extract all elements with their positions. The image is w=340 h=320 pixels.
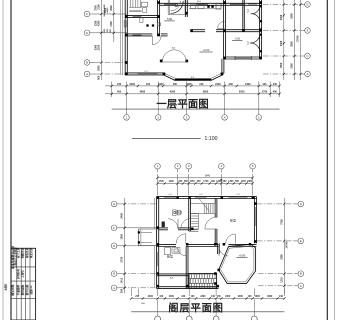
svg-text:4: 4 <box>221 164 223 168</box>
svg-text:平面图样: 平面图样 <box>16 284 20 295</box>
svg-text:900: 900 <box>97 75 100 80</box>
columns (plan2 concrete) <box>156 196 256 287</box>
svg-text:1210: 1210 <box>281 277 284 283</box>
wall: plan2 bedroom west lower <box>214 229 216 244</box>
svg-text:2400: 2400 <box>200 295 206 298</box>
svg-text:2360: 2360 <box>247 181 253 183</box>
svg-text:9840: 9840 <box>205 176 211 178</box>
svg-text:A: A <box>300 284 302 288</box>
dimension line (plan1 left inner) <box>113 0 115 42</box>
svg-text:工程号: 工程号 <box>20 270 24 278</box>
svg-text:500: 500 <box>235 181 240 183</box>
grid bubble 5 (plan1) <box>256 115 262 121</box>
svg-text:390: 390 <box>121 288 124 293</box>
svg-text:C-2: C-2 <box>247 40 249 44</box>
grid stems to bubbles (plan1 bottom) <box>127 97 259 114</box>
elevation label +5.80 (terrace) <box>237 255 248 258</box>
dimension line (plan2 right) <box>283 198 285 293</box>
grid line E dash-dot right <box>263 30 301 32</box>
window glazing wall E <box>133 34 142 37</box>
grid bubble 2 (plan2 top) <box>175 163 181 172</box>
svg-text:2700: 2700 <box>94 5 97 11</box>
title block text: project row <box>16 268 24 280</box>
bay window glazing thick <box>175 79 212 81</box>
svg-text:G: G <box>306 3 308 7</box>
svg-text:-0.05: -0.05 <box>235 37 241 40</box>
wall: plan2 stair west <box>188 199 190 232</box>
dimension row 1 (plan2 bottom) <box>130 297 285 299</box>
french door (living south wall) <box>160 60 188 63</box>
svg-text:1450: 1450 <box>228 180 234 183</box>
stair dim note (plan1 upper-left) <box>103 3 109 33</box>
svg-text:2400: 2400 <box>186 83 192 86</box>
grid bubble B (plan2 left) <box>111 271 121 277</box>
window glazing top wall (plan2) <box>164 197 248 199</box>
svg-text:550: 550 <box>184 181 189 183</box>
wall: plan1 kitchen bottom left part <box>191 29 205 31</box>
svg-text:+5.80: +5.80 <box>239 255 246 258</box>
svg-text:2400: 2400 <box>215 83 221 86</box>
svg-text:1200: 1200 <box>94 20 97 26</box>
svg-text:5: 5 <box>258 115 260 119</box>
svg-text:M-6: M-6 <box>172 48 176 50</box>
kitchen sink east <box>216 4 221 10</box>
flue niche on west wall <box>124 21 126 27</box>
small box east of left room <box>158 23 161 26</box>
door arc bedroom east (plan2) <box>226 234 236 244</box>
svg-text:1800: 1800 <box>291 63 294 69</box>
small fixture (plan1 left room) <box>140 18 143 22</box>
svg-text:350: 350 <box>178 181 183 183</box>
window glazing plan1 top wall <box>164 3 257 6</box>
grid line B dash-dot (plan2 right) <box>258 273 294 275</box>
wall: plan2 top exterior <box>157 196 257 198</box>
title block text: design institute <box>10 246 17 270</box>
svg-text:会签栏: 会签栏 <box>3 283 7 291</box>
wall: plan1 row C horizontal <box>224 56 262 58</box>
wall: plan2 lower partition vertical <box>185 247 187 289</box>
dimension texts (plan1 left inner) <box>104 5 113 27</box>
grid bubble 3 (plan2 top) <box>186 163 192 172</box>
svg-text:140: 140 <box>199 83 204 86</box>
wall: plan2 right exterior <box>253 197 255 244</box>
window glazing wall F <box>133 15 142 18</box>
grid bubble A (plan2 left) <box>111 285 121 291</box>
svg-text:一层平面图: 一层平面图 <box>156 98 208 110</box>
svg-text:2600: 2600 <box>291 13 294 19</box>
svg-text:400: 400 <box>117 91 122 94</box>
wall: plan2 corridor row D west <box>157 243 176 245</box>
svg-text:2600: 2600 <box>104 28 106 33</box>
svg-text:审核张某: 审核张某 <box>25 247 29 258</box>
svg-text:900: 900 <box>110 28 112 32</box>
window glazing left wall (plan2) <box>157 252 159 266</box>
svg-text:A: A <box>307 72 309 76</box>
toilet fixtures (plan1 WC) <box>141 2 147 12</box>
eave line plan1 west inner <box>122 0 124 75</box>
kitchen counter west <box>189 5 221 9</box>
svg-text:2400: 2400 <box>238 295 244 298</box>
svg-text:图名别墅: 图名别墅 <box>11 284 15 295</box>
svg-text:1300: 1300 <box>110 21 113 27</box>
french window lower (plan1 east) <box>250 34 262 53</box>
svg-text:4: 4 <box>224 115 226 119</box>
bay window outline (plan1 living) <box>164 75 223 80</box>
svg-text:F: F <box>86 12 88 16</box>
grid bubble B (plan1 left) <box>84 60 95 66</box>
svg-text:100: 100 <box>146 83 151 86</box>
svg-text:1:100: 1:100 <box>205 136 218 142</box>
grid stems to bottom bubbles (plan2) <box>158 300 255 317</box>
dimension texts (plan1 left outer) <box>97 4 100 80</box>
dimension line (plan1 right inner) <box>283 0 285 80</box>
elevation label -0.05 <box>232 37 243 40</box>
extra dimension texts (plan1 left) <box>94 5 112 51</box>
sheet frame inner left border <box>10 0 12 320</box>
dimension texts (plan1 right inner) <box>280 14 283 68</box>
title block outline <box>11 248 36 320</box>
dark fixture (plan2) <box>162 222 165 228</box>
stair treads (plan1 upper-left) <box>129 0 141 12</box>
grid bubble 4 (plan1) <box>222 115 228 121</box>
svg-text:2400: 2400 <box>169 295 175 298</box>
columns (plan1 concrete) <box>125 1 262 75</box>
grid bubble F (plan1 left) <box>84 11 95 17</box>
dimension extension lines (plan2 top) <box>158 174 253 196</box>
dimension texts (plan2 top) <box>159 180 253 183</box>
svg-text:5.80: 5.80 <box>167 17 173 21</box>
title block column dividers <box>17 248 30 320</box>
svg-text:C: C <box>306 54 308 58</box>
svg-text:阁层平面图: 阁层平面图 <box>168 301 223 314</box>
title block text: sheet row <box>11 284 34 295</box>
svg-text:4200: 4200 <box>97 20 100 26</box>
dimension line (plan2 left) <box>123 198 125 293</box>
svg-text:C-3: C-3 <box>236 194 240 196</box>
svg-text:1800: 1800 <box>121 233 124 239</box>
svg-text:G: G <box>300 202 302 206</box>
wall: plan2 corridor row D far east <box>229 243 257 245</box>
wall: plan1 right exterior <box>259 0 261 59</box>
eave line plan1 west outer <box>120 0 122 75</box>
svg-text:3: 3 <box>186 115 188 119</box>
svg-text:240: 240 <box>273 83 278 86</box>
svg-text:某地私宅: 某地私宅 <box>16 268 20 280</box>
svg-text:200: 200 <box>173 83 178 86</box>
ground line under plan2 title <box>131 311 284 313</box>
svg-text:A: A <box>86 72 88 76</box>
washbasin fixtures (plan2 bath) <box>173 210 181 215</box>
svg-text:A-6: A-6 <box>170 276 174 279</box>
svg-text:14340: 14340 <box>286 241 289 249</box>
svg-text:1200: 1200 <box>169 181 175 183</box>
svg-text:G: G <box>113 202 115 206</box>
wall: plan1 top horizontal <box>160 2 262 4</box>
svg-text:D: D <box>113 244 115 248</box>
svg-text:240: 240 <box>181 295 186 298</box>
svg-text:17040: 17040 <box>297 35 300 43</box>
svg-text:2500: 2500 <box>291 41 294 47</box>
wall: plan1 kitchen bottom right part <box>216 29 262 31</box>
french window upper (plan1 east) <box>251 5 262 22</box>
svg-text:250: 250 <box>197 181 202 183</box>
svg-text:1700: 1700 <box>159 181 165 183</box>
svg-text:卧室: 卧室 <box>230 218 236 223</box>
svg-text:2: 2 <box>177 164 179 168</box>
sheet frame outer left border <box>2 0 4 320</box>
grid bubble C (plan1 right) <box>301 53 310 59</box>
svg-text:图别建施: 图别建施 <box>20 284 24 295</box>
svg-text:100: 100 <box>217 296 222 298</box>
grid bubble G (plan2 right) <box>294 201 304 207</box>
stair treads upper flight (plan2) <box>190 203 215 213</box>
wall: plan1 row E horizontal right stub <box>161 33 168 35</box>
svg-text:2790: 2790 <box>121 256 124 262</box>
eave line plan2 west upper <box>154 198 156 229</box>
wall: plan1 interior vertical grid2 <box>157 0 159 36</box>
svg-text:C-4: C-4 <box>168 194 172 196</box>
grid line D (plan2 left) <box>121 245 157 247</box>
ground line under plan1 title <box>112 108 280 110</box>
svg-text:18x260=4680: 18x260=4680 <box>103 3 106 16</box>
grid bubble G (plan2 left) <box>111 201 121 207</box>
svg-text:C-2: C-2 <box>199 194 203 196</box>
dimension row 1 (plan1 bottom, segments) <box>105 85 281 87</box>
svg-text:1700: 1700 <box>262 91 268 94</box>
svg-text:制图李某: 制图李某 <box>20 247 24 258</box>
svg-text:500: 500 <box>223 181 228 183</box>
grid line G dash-dot right <box>263 4 301 6</box>
dimension extension lines (plan2 bottom) <box>131 289 284 297</box>
svg-text:C-2: C-2 <box>247 8 249 12</box>
dimension texts (plan1 right mid) <box>291 13 294 69</box>
french door arcs (living south) <box>162 50 186 62</box>
window in row C wall <box>235 56 252 60</box>
svg-text:100: 100 <box>262 83 267 86</box>
svg-text:100: 100 <box>159 296 164 298</box>
svg-text:1750: 1750 <box>189 181 195 183</box>
stair curved stringer arc <box>181 218 191 228</box>
shower pan quarter circle <box>168 0 185 15</box>
svg-text:3: 3 <box>188 164 190 168</box>
dimension line (plan1 left outer) <box>100 0 102 80</box>
plan1 scale bar line <box>132 138 201 140</box>
svg-text:图号日期: 图号日期 <box>25 284 29 295</box>
door arc corridor (plan2) <box>176 234 186 244</box>
svg-text:2400: 2400 <box>129 83 135 86</box>
svg-text:3300: 3300 <box>94 44 97 50</box>
grid bubble B (plan2 right) <box>294 271 304 277</box>
sheet frame outer right border <box>334 0 336 320</box>
svg-text:3700: 3700 <box>281 219 284 225</box>
balcony railing hatched (plan2 south) <box>189 274 217 289</box>
wall: plan2 row F partition west <box>159 227 168 229</box>
svg-text:建施-02: 建施-02 <box>29 285 33 294</box>
grid bubble 1 (plan2 top) <box>155 163 161 172</box>
svg-text:B: B <box>113 272 115 276</box>
grid bubble 3 (plan1) <box>184 115 190 121</box>
wall: plan2 left exterior <box>156 197 158 289</box>
dimension segment row (plan2 top) <box>156 182 254 184</box>
svg-text:100: 100 <box>248 296 253 298</box>
door arc kitchen (plan1) <box>218 21 225 28</box>
dimension line (plan1 right overall) <box>299 0 301 80</box>
wall: plan1 interior vertical right rooms <box>242 0 244 30</box>
dimension texts row 1 (plan2 bottom) <box>135 295 283 298</box>
grid bubble 5 (plan2 top) <box>250 163 256 172</box>
svg-text:5800: 5800 <box>203 91 209 94</box>
grid bubble 2 (plan1) <box>155 115 161 121</box>
grid line G dash-dot (plan2 right) <box>257 203 294 205</box>
svg-text:B: B <box>86 61 88 65</box>
svg-text:2400: 2400 <box>121 212 124 218</box>
dimension overall row (plan2 top) 9840 <box>156 176 254 179</box>
svg-text:240: 240 <box>279 295 284 298</box>
stair direction diagonal <box>199 199 210 212</box>
bay window inner line <box>164 73 222 78</box>
grid line E <box>95 32 127 34</box>
dimension extension lines (plan1 bottom) <box>112 82 280 98</box>
svg-text:3000: 3000 <box>97 65 100 71</box>
title block row dividers <box>11 267 36 299</box>
wall: plan2 bottom exterior <box>157 286 219 288</box>
grid line G dash-dot (plan2 left) <box>121 203 157 205</box>
svg-text:240: 240 <box>117 83 122 86</box>
svg-text:2000: 2000 <box>110 5 113 11</box>
section marker below bubble 4 <box>220 179 222 183</box>
svg-text:360: 360 <box>211 181 216 183</box>
grid line A dash-dot right <box>263 73 301 75</box>
grid bubble E (plan1 right) <box>301 28 310 34</box>
dimension texts row 2 (plan1 bottom) <box>117 91 278 94</box>
door arc row F (plan2) <box>168 219 178 229</box>
stair treads lower flight (plan2) <box>191 213 198 229</box>
svg-text:1300: 1300 <box>107 28 109 33</box>
title block text: approval column <box>16 247 33 258</box>
window glazing right wall (plan2) <box>255 207 257 226</box>
svg-text:2400: 2400 <box>158 83 164 86</box>
svg-text:240: 240 <box>135 295 140 298</box>
wall: plan1 left exterior <box>124 0 126 75</box>
svg-text:E: E <box>86 31 88 35</box>
svg-text:4800: 4800 <box>140 91 146 94</box>
terrace outline outer (plan2) <box>219 244 256 283</box>
svg-text:B: B <box>300 272 302 276</box>
wall: plan1 shower partition <box>185 0 187 17</box>
svg-text:4300: 4300 <box>170 91 176 94</box>
svg-text:3600: 3600 <box>267 296 273 298</box>
svg-text:2400: 2400 <box>245 83 251 86</box>
window C-1 in bottom wall <box>138 71 158 74</box>
svg-text:1: 1 <box>157 164 159 168</box>
wall: plan1 row F horizontal <box>125 15 160 17</box>
grid line B dash-dot (plan2 left) <box>121 273 157 275</box>
svg-text:5: 5 <box>252 164 254 168</box>
grid line F (plan2 left) <box>121 227 157 229</box>
grid bubble F (plan2 left) <box>111 225 121 231</box>
grid bubble A (plan1 right) <box>301 71 310 77</box>
grid bubble 4 (plan2 top) <box>219 163 225 172</box>
svg-text:2100: 2100 <box>97 44 100 50</box>
door arc stair east (plan2) <box>205 217 217 229</box>
svg-text:卧室: 卧室 <box>167 254 173 259</box>
door arc hall (plan1) <box>152 36 161 45</box>
svg-text:设计王某: 设计王某 <box>16 247 20 258</box>
wall: plan2 row F partition east <box>178 227 190 229</box>
svg-text:卫生间: 卫生间 <box>174 210 183 214</box>
wall: plan2 stair east <box>214 199 216 218</box>
svg-text:2400: 2400 <box>148 295 154 298</box>
svg-text:5200: 5200 <box>239 91 245 94</box>
dimension line (plan1 right mid) <box>293 0 295 80</box>
sheet frame inner right border <box>326 0 328 320</box>
svg-text:1450: 1450 <box>241 180 247 183</box>
grid bubble D (plan2 left) <box>111 243 121 249</box>
grid bubble 1 (plan1) <box>124 115 130 121</box>
grid line F <box>95 13 127 15</box>
svg-text:1800: 1800 <box>255 296 261 298</box>
kitchen stove burners <box>207 5 213 7</box>
elevation label 5.80 <box>164 17 174 21</box>
door arc terrace (plan2) <box>219 247 228 256</box>
grid bubble G (plan1 right) <box>301 2 310 8</box>
svg-text:1: 1 <box>126 115 128 119</box>
svg-text:100: 100 <box>191 296 196 298</box>
svg-text:1750: 1750 <box>203 181 209 183</box>
svg-text:审定刘某: 审定刘某 <box>29 247 33 258</box>
grid line C dash-dot right <box>263 55 301 57</box>
svg-text:1410: 1410 <box>121 277 124 283</box>
grid line E dash-dot (plan2 right) <box>257 240 294 242</box>
svg-text:2400: 2400 <box>225 295 231 298</box>
wall: plan1 bottom row A <box>125 72 163 74</box>
bottom bubbles (plan2, clipped) <box>155 316 258 320</box>
wardrobe fixtures (plan2 lower-left room) <box>165 248 181 255</box>
wall: plan2 row B partition <box>157 273 188 275</box>
grid line A dash-dot (plan2 right) <box>258 285 294 287</box>
eave line plan2 west lower <box>154 246 156 287</box>
svg-text:E: E <box>300 239 302 243</box>
svg-text:+0.00: +0.00 <box>203 48 210 52</box>
wall: plan1 living east side lower <box>221 59 223 74</box>
stair bottom wall stub (plan2) <box>189 230 199 232</box>
dimension texts (plan2 left) <box>121 212 124 293</box>
svg-text:1500: 1500 <box>280 62 283 68</box>
grid line A dash-dot <box>95 73 126 75</box>
wall: plan2 terrace stub <box>217 243 219 254</box>
dimension row 2 (plan1 bottom, totals) <box>105 93 281 95</box>
grid bubble A (plan2 right) <box>294 283 304 289</box>
svg-text:=4680: =4680 <box>106 7 109 14</box>
wall: plan1 row E horizontal left <box>125 33 152 35</box>
svg-text:2: 2 <box>157 115 159 119</box>
grid bubble E (plan2 right) <box>294 238 304 244</box>
svg-text:A: A <box>113 286 115 290</box>
svg-text:3280: 3280 <box>281 254 284 260</box>
grid line B dash-dot <box>95 62 126 64</box>
svg-text:F: F <box>113 226 115 230</box>
svg-text:2100: 2100 <box>97 4 100 10</box>
svg-text:140: 140 <box>211 295 216 298</box>
wall: plan2 corridor row D east <box>186 243 219 245</box>
shower room west wall <box>167 0 169 13</box>
svg-text:2300: 2300 <box>280 14 283 20</box>
svg-text:400: 400 <box>141 303 145 305</box>
bay window columns <box>138 231 140 243</box>
svg-text:E: E <box>307 29 309 33</box>
grid bubble E (plan1 left) <box>84 30 95 36</box>
grid bubble A (plan1 left) <box>84 71 95 77</box>
